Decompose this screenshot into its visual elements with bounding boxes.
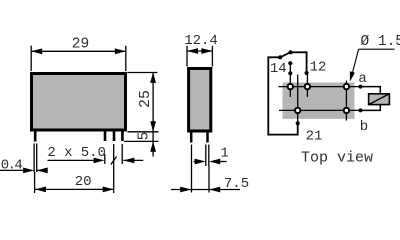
svg-text:2 x 5.0: 2 x 5.0 [47, 145, 106, 161]
svg-text:1: 1 [220, 145, 228, 161]
svg-text:7.5: 7.5 [224, 176, 249, 192]
svg-text:0.4: 0.4 [1, 158, 23, 174]
svg-text:12.4: 12.4 [184, 33, 218, 49]
svg-text:Ø 1.5: Ø 1.5 [361, 34, 400, 50]
svg-text:21: 21 [306, 129, 323, 145]
svg-text:b: b [360, 119, 368, 135]
svg-text:12: 12 [310, 60, 327, 76]
svg-text:a: a [358, 71, 366, 87]
svg-text:14: 14 [270, 61, 287, 77]
svg-text:Top view: Top view [301, 150, 373, 167]
svg-text:5: 5 [137, 132, 153, 141]
svg-text:29: 29 [72, 36, 89, 52]
svg-text:25: 25 [137, 90, 154, 108]
svg-text:20: 20 [75, 174, 92, 190]
